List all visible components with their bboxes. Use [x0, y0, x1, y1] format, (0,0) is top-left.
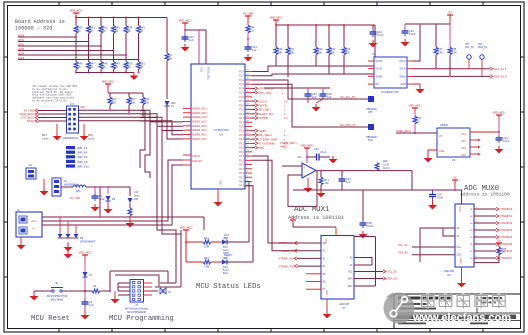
svg-text:RST: RST: [348, 286, 353, 288]
resistor R49 pulldown: [113, 51, 115, 62]
power VDD_MCU (reset): [82, 254, 88, 256]
resistor R46 40K: [142, 93, 144, 97]
svg-text:1uF: 1uF: [89, 303, 94, 307]
svg-text:2K: 2K: [502, 252, 505, 254]
svg-text:0.1uF: 0.1uF: [437, 196, 444, 200]
power VDD_MCU (LEDs): [183, 229, 189, 231]
wire mux1 SDA: [354, 278, 383, 280]
title block text bars: [398, 297, 453, 300]
svg-text:40K: 40K: [318, 51, 323, 55]
svg-text:VDD_MCU: VDD_MCU: [270, 16, 283, 20]
capacitor C34 0.1uF: [372, 25, 374, 29]
svg-text:2K: 2K: [103, 65, 106, 69]
wire pullup rail J17: [107, 87, 109, 93]
svg-text:5V_USB: 5V_USB: [243, 12, 253, 16]
svg-text:P2.7: P2.7: [239, 134, 245, 137]
svg-text:VDD: VDD: [200, 67, 203, 72]
title block frame: [394, 293, 521, 295]
capacitor C43 1uF: [247, 44, 249, 47]
resistor R41 pullup: [88, 18, 90, 26]
svg-text:ADDR6_MCU: ADDR6_MCU: [192, 134, 207, 137]
svg-text:GND: GND: [459, 258, 462, 264]
svg-text:U10: U10: [297, 156, 302, 159]
svg-text:VTEMP03: VTEMP03: [500, 228, 513, 232]
wire button to ground: [34, 290, 52, 292]
svg-text:MCU Status LEDs: MCU Status LEDs: [196, 283, 261, 291]
svg-text:R44: R44: [250, 25, 255, 29]
MCU U5 CY8C9T30 body: [191, 64, 245, 189]
svg-text:R34: R34: [346, 47, 351, 51]
svg-text:40K: 40K: [331, 51, 336, 55]
svg-text:ADG728: ADG728: [339, 302, 350, 306]
resistor R75 2K: [498, 246, 500, 247]
wire array bottom rail: [76, 72, 134, 74]
svg-text:JMP_7-8: JMP_7-8: [77, 160, 88, 164]
svg-text:GND: GND: [439, 151, 444, 153]
svg-text:VTEMP_LM: VTEMP_LM: [279, 241, 294, 245]
svg-text:R46: R46: [145, 97, 150, 101]
svg-text:ADDR2_MCU: ADDR2_MCU: [192, 116, 207, 119]
svg-text:5V_USB: 5V_USB: [70, 197, 80, 200]
border zone tick marks: [58, 2, 60, 6]
svg-text:side: side: [88, 137, 95, 141]
wire VBUS riser to 5V_USB rail: [99, 187, 101, 217]
svg-text:R32: R32: [318, 47, 323, 51]
ground (C2): [94, 204, 96, 207]
LED D12 ACTIVE: [222, 240, 227, 245]
svg-text:MISO: MISO: [27, 119, 34, 123]
svg-text:JMP_5-6: JMP_5-6: [77, 155, 88, 159]
svg-text:1uF: 1uF: [312, 95, 317, 99]
ground (USB shell): [20, 237, 22, 242]
svg-text:P2.5: P2.5: [239, 125, 245, 128]
svg-text:VDD_MCU: VDD_MCU: [409, 104, 422, 108]
svg-text:R44: R44: [128, 26, 133, 30]
svg-text:R75: R75: [502, 249, 507, 251]
svg-text:1uF: 1uF: [346, 180, 351, 184]
wire mux0 A1 tie: [443, 228, 455, 236]
svg-text:ACT: ACT: [224, 234, 229, 237]
svg-text:5V: 5V: [291, 216, 294, 220]
svg-text:MOSI_MCU: MOSI_MCU: [20, 112, 35, 116]
svg-text:Board Address is: Board Address is: [15, 19, 65, 25]
svg-text:P3.3: P3.3: [239, 151, 245, 154]
watermark logo disc: [384, 293, 415, 324]
svg-text:R49: R49: [115, 62, 120, 66]
svg-text:ADR4: ADR4: [18, 52, 25, 55]
wire mux1 A0 A1 tie: [354, 258, 372, 266]
ground (prog header): [114, 291, 116, 296]
ground (U9): [428, 150, 437, 155]
svg-text:1uF: 1uF: [327, 95, 332, 99]
svg-text:2K: 2K: [115, 29, 118, 33]
svg-text:VDD_MCU: VDD_MCU: [180, 226, 193, 230]
capacitor C39 0.1uF: [432, 190, 434, 192]
svg-text:P2.6: P2.6: [239, 130, 245, 133]
svg-text:GND: GND: [219, 180, 222, 186]
svg-text:EN: EN: [376, 84, 380, 86]
capacitor C42 0.1uF: [307, 91, 309, 94]
svg-text:JMP_3-4: JMP_3-4: [77, 151, 88, 155]
wire 5V rail across: [293, 189, 455, 191]
svg-text:2K: 2K: [140, 29, 143, 33]
connector J3 shrouded header: [130, 280, 144, 303]
svg-text:R22: R22: [204, 256, 209, 260]
ground (usb shield): [67, 251, 69, 254]
LED D11 power: [129, 187, 131, 196]
wire mux1 SCL: [354, 271, 383, 273]
resistor R43 40K: [128, 93, 130, 97]
ground (C39): [432, 200, 434, 203]
svg-text:1uF: 1uF: [189, 38, 194, 42]
svg-text:VTEMP07: VTEMP07: [500, 256, 513, 260]
svg-text:MCU Reset: MCU Reset: [51, 299, 64, 302]
capacitor C40: [404, 28, 406, 31]
svg-text:VDD: VDD: [458, 207, 461, 212]
wire D40 to MCU: [167, 106, 183, 139]
watermark chinese characters: [422, 294, 435, 309]
svg-text:40K: 40K: [290, 51, 295, 55]
svg-text:0.1uF: 0.1uF: [503, 139, 510, 143]
svg-text:I/O: I/O: [439, 136, 442, 138]
svg-text:ADR1: ADR1: [18, 39, 25, 42]
svg-text:ADDR5_MCU: ADDR5_MCU: [192, 129, 207, 132]
svg-text:NC2: NC2: [461, 148, 466, 150]
svg-text:SCL_5V 8: SCL_5V 8: [494, 67, 507, 71]
wire MCU right nets with labels: [252, 87, 255, 89]
svg-text:P1.4: P1.4: [239, 87, 245, 90]
wire opamp output: [316, 170, 412, 172]
MCU left pins group1: [183, 107, 191, 109]
net label VTEMP03: [474, 229, 496, 231]
power 5V wire to U7 VDD: [293, 223, 336, 227]
svg-text:P1.2: P1.2: [239, 79, 245, 82]
capacitor C41 0.1uF: [498, 135, 500, 138]
svg-text:2.4K: 2.4K: [452, 51, 458, 55]
svg-text:P2.2: P2.2: [239, 113, 245, 116]
svg-text:ADC MUX1: ADC MUX1: [294, 206, 330, 214]
svg-text:C46: C46: [314, 148, 319, 151]
net alias JMP_1-2 blocks: [66, 146, 75, 149]
svg-text:ADDR1_MCU: ADDR1_MCU: [192, 112, 207, 115]
svg-text:FB1: FB1: [76, 190, 81, 193]
svg-text:P4.2: P4.2: [239, 180, 245, 183]
capacitor C2 10uF: [94, 187, 96, 193]
svg-text:SDA_5V: SDA_5V: [398, 251, 408, 255]
svg-text:VTEMP02: VTEMP02: [500, 221, 513, 225]
svg-text:2K: 2K: [90, 29, 93, 33]
resistor R51 pulldown: [138, 60, 140, 62]
wire J17 left wires: [38, 110, 67, 112]
svg-text:SCL_5V: SCL_5V: [465, 46, 474, 49]
power 5V_USB (MCU): [245, 15, 251, 17]
svg-text:2K: 2K: [140, 65, 143, 69]
net label VTEMP04: [474, 236, 496, 238]
ground (C38): [362, 231, 364, 234]
wire opamp feedback loop: [288, 171, 317, 207]
IC U7 ADG728 mux1: [321, 236, 354, 300]
wire pullup rail: [275, 23, 277, 25]
ground (J17 right): [83, 124, 85, 133]
svg-text:R41: R41: [112, 97, 117, 101]
svg-text:U6: U6: [447, 273, 451, 277]
ground (C46): [332, 156, 334, 159]
svg-text:R21: R21: [204, 236, 209, 240]
wire SCL/SDA to U2: [252, 66, 374, 72]
resistor R22 2.4K row2: [186, 261, 203, 263]
svg-text:Address is 1001100: Address is 1001100: [460, 192, 510, 198]
ground (C41): [498, 146, 500, 149]
net label VTEMP07: [474, 257, 496, 259]
resistor R49 precision: [375, 163, 379, 171]
svg-text:5V: 5V: [497, 239, 500, 243]
U7 unused pin stub: [306, 288, 321, 290]
svg-text:READY: READY: [224, 254, 233, 257]
resistor R38 2.4K: [449, 24, 451, 47]
power 5V (mux0): [452, 179, 458, 181]
svg-text:SDA: SDA: [348, 278, 353, 281]
wire header left wires: [118, 282, 130, 284]
svg-text:3V: 3V: [171, 105, 174, 108]
ground (C1): [84, 307, 86, 312]
svg-text:5V_USB: 5V_USB: [24, 109, 35, 113]
svg-text:SCLB: SCLB: [376, 69, 382, 71]
svg-text:SDA_5V: SDA_5V: [387, 277, 398, 281]
svg-text:VCC: VCC: [461, 134, 466, 136]
svg-text:SDAB: SDAB: [376, 75, 383, 78]
resistor R37 2.4K: [435, 24, 437, 47]
power VDD_MCU (J17 pullups): [105, 83, 111, 85]
svg-text:P3.4: P3.4: [239, 155, 245, 158]
svg-text:2K: 2K: [78, 65, 81, 69]
ground (C31): [184, 44, 186, 47]
svg-text:ADDR7_MCU: ADDR7_MCU: [192, 138, 207, 141]
net label VTEMP05: [474, 243, 496, 245]
svg-text:R30: R30: [278, 47, 283, 51]
svg-text:SCL_5V: SCL_5V: [387, 270, 397, 274]
net label VTEMP06: [474, 250, 496, 252]
svg-text:J17: J17: [70, 102, 75, 106]
svg-text:1,6: 1,6: [284, 99, 288, 103]
svg-text:ADR2: ADR2: [18, 43, 25, 46]
resistor R32 pullup 40K: [315, 25, 317, 47]
svg-text:ADR3: ADR3: [18, 48, 25, 51]
svg-text:MCU PROGRAM: MCU PROGRAM: [127, 311, 145, 314]
wire VDD to MCU top: [182, 22, 188, 24]
svg-text:R41: R41: [90, 26, 95, 30]
svg-text:R47: R47: [90, 62, 95, 66]
svg-text:SCLA: SCLA: [399, 68, 405, 71]
svg-text:P1.1: P1.1: [239, 75, 245, 78]
svg-text:XRES_MCU: XRES_MCU: [207, 67, 210, 81]
LED D13 READY: [222, 260, 227, 265]
wire mux0 A0: [420, 227, 455, 229]
capacitor C44 1uF: [341, 171, 343, 176]
svg-text:P3.2: P3.2: [239, 147, 245, 150]
ground (J8): [43, 179, 45, 188]
pushbutton S1: [84, 290, 86, 292]
MCU bottom pin + ground: [217, 189, 219, 199]
svg-text:R48: R48: [103, 62, 108, 66]
svg-text:-: -: [304, 173, 305, 177]
wire opamp + input: [282, 165, 302, 167]
wire J17 right wires: [79, 109, 141, 111]
svg-text:NC3: NC3: [461, 155, 466, 157]
wire address bus lines: [18, 36, 76, 38]
svg-text:GND: GND: [325, 290, 328, 296]
ground (C40): [404, 39, 406, 42]
svg-text:5V: 5V: [448, 11, 451, 15]
IC U6 ADG728 mux0: [455, 204, 474, 267]
power VDD_MCU (opamp): [304, 147, 310, 149]
net label VTEMP_SH: [297, 257, 321, 259]
wire mux0 reset pullup: [474, 254, 499, 263]
resistor R2 XRES: [85, 290, 92, 292]
svg-text:R7G: R7G: [368, 139, 373, 142]
power 5V (R75): [496, 242, 502, 244]
wire mux1 reset vertical: [354, 285, 376, 287]
net label VTEMP_TN: [297, 265, 321, 267]
net label SDA_5V (mux1): [383, 277, 386, 280]
svg-text:VDD_MCU: VDD_MCU: [301, 144, 314, 148]
power 5V (mux1): [290, 219, 296, 221]
ground (C34): [372, 40, 374, 43]
svg-text:40K: 40K: [131, 101, 136, 105]
wire long vertical runs: [140, 111, 145, 169]
net label SCK_MCU: [35, 116, 38, 119]
ground (U2 GND pin): [413, 84, 420, 86]
svg-text:2.4K: 2.4K: [204, 245, 210, 249]
U9 NC stubs: [470, 139, 478, 141]
svg-text:BLU: BLU: [223, 271, 228, 275]
svg-text:SDA_5V: SDA_5V: [478, 46, 488, 49]
svg-text:P4.1: P4.1: [239, 176, 245, 179]
svg-text:40K: 40K: [278, 51, 283, 55]
svg-text:1,6: 1,6: [284, 116, 288, 120]
svg-text:ADR0: ADR0: [18, 34, 25, 37]
net label 5V_USB: [35, 109, 38, 112]
svg-text:1uF: 1uF: [252, 48, 257, 52]
svg-text:R43: R43: [115, 26, 120, 30]
svg-text:P3.0: P3.0: [239, 138, 245, 141]
svg-text:VTEMP_R: VTEMP_R: [280, 249, 293, 253]
resistor R43 pullup: [113, 18, 115, 26]
svg-text:VDD_MCU: VDD_MCU: [70, 9, 83, 13]
svg-text:0.1uF: 0.1uF: [367, 224, 374, 228]
svg-text:J8: J8: [28, 164, 32, 167]
svg-text:SP0503BAHT: SP0503BAHT: [80, 241, 96, 244]
svg-text:R4: R4: [169, 53, 173, 57]
wire U9 VCC to cap: [470, 131, 499, 133]
resistor R45 pullup: [138, 18, 140, 26]
thermistor RT1 10K: [320, 171, 322, 177]
svg-text:2K: 2K: [128, 29, 131, 33]
wire MCU to mux1 vertical runs: [252, 156, 297, 243]
resistor R21 2.4K row1: [186, 241, 203, 243]
svg-text:P4.3: P4.3: [239, 185, 245, 188]
resistor R4 1M: [165, 53, 169, 61]
power VDD_MCU (C41): [496, 114, 502, 116]
svg-text:P3.6: P3.6: [239, 164, 245, 167]
svg-text:U7: U7: [342, 306, 346, 310]
svg-text:SCL: SCL: [348, 272, 353, 274]
svg-text:R33: R33: [331, 47, 336, 51]
power VDD_MCU (R45): [412, 107, 418, 109]
svg-text:JMP_9-10: JMP_9-10: [77, 164, 89, 168]
resistor R45 1K: [414, 111, 416, 116]
svg-text:P2.3: P2.3: [239, 117, 245, 120]
capacitor C31 0.1uF: [184, 34, 186, 37]
svg-text:40K: 40K: [145, 101, 150, 105]
svg-text:P1.5: P1.5: [239, 92, 245, 95]
svg-text:1K: 1K: [417, 120, 420, 124]
svg-text:ADG728: ADG728: [444, 269, 455, 273]
header right short stubs: [144, 282, 153, 284]
svg-text:VDD_MCU: VDD_MCU: [179, 19, 192, 23]
svg-text:VCCB: VCCB: [376, 61, 383, 63]
svg-text:AMP 1: AMP 1: [280, 146, 288, 149]
svg-text:2.4K: 2.4K: [438, 51, 444, 55]
svg-text:0.1uF: 0.1uF: [377, 33, 384, 37]
svg-text:P3.1: P3.1: [239, 142, 245, 145]
svg-text:I2C_SCL_5V: I2C_SCL_5V: [340, 95, 355, 99]
wire rail to U2 pin: [374, 25, 376, 60]
svg-text:P1.7: P1.7: [239, 100, 245, 103]
U7 unused pin stub: [306, 273, 321, 275]
svg-text:NC1: NC1: [461, 141, 466, 143]
net label SCL_5V: [490, 67, 493, 70]
svg-text:P3.5: P3.5: [239, 159, 245, 162]
svg-text:510: 510: [250, 29, 255, 33]
svg-text:JMP_1-2: JMP_1-2: [77, 146, 88, 150]
svg-text:VTEMP_SH: VTEMP_SH: [279, 257, 294, 261]
svg-text:VDD_MCU: VDD_MCU: [102, 80, 115, 84]
svg-text:J7B: J7B: [368, 111, 373, 114]
resistor R30 pullup 40K: [275, 25, 277, 47]
ground (D5): [67, 244, 69, 247]
svg-text:P2.0: P2.0: [239, 104, 245, 107]
svg-text:side: side: [42, 137, 49, 141]
resistor R40 pullup: [75, 18, 77, 26]
svg-text:10K: 10K: [325, 182, 330, 185]
capacitor C30 0.1uF: [322, 91, 324, 94]
svg-text:R38: R38: [452, 47, 457, 51]
svg-text:www.elecfans.com: www.elecfans.com: [412, 312, 511, 324]
capacitor C38 0.1uF: [362, 190, 364, 220]
wire MCU right lower nets: [252, 130, 255, 132]
svg-text:VTEMP01: VTEMP01: [500, 214, 513, 218]
ground (S1): [33, 293, 35, 296]
resistor R44 510: [247, 19, 249, 25]
svg-text:R31: R31: [290, 47, 295, 51]
svg-text:5V: 5V: [453, 176, 456, 180]
svg-text:2K: 2K: [115, 65, 118, 69]
svg-text:100000 - 32d: 100000 - 32d: [15, 26, 52, 32]
ground (array): [133, 73, 135, 76]
resistor R47 pulldown: [88, 42, 90, 62]
svg-text:I2C_SDA_5V: I2C_SDA_5V: [340, 123, 356, 127]
resistor R44 pullup: [125, 18, 127, 26]
wire programming loops: [110, 270, 168, 272]
svg-text:P4.0: P4.0: [239, 172, 245, 175]
power 5V rail (U2): [447, 14, 453, 16]
wire top rail VDD: [75, 16, 77, 18]
ground (C43): [247, 54, 249, 57]
svg-text:SDA: SDA: [457, 254, 462, 257]
svg-text:XTALIN: XTALIN: [192, 155, 200, 158]
net label SDA_5V: [490, 75, 493, 78]
wire staircase J17 to MCU: [140, 110, 183, 122]
